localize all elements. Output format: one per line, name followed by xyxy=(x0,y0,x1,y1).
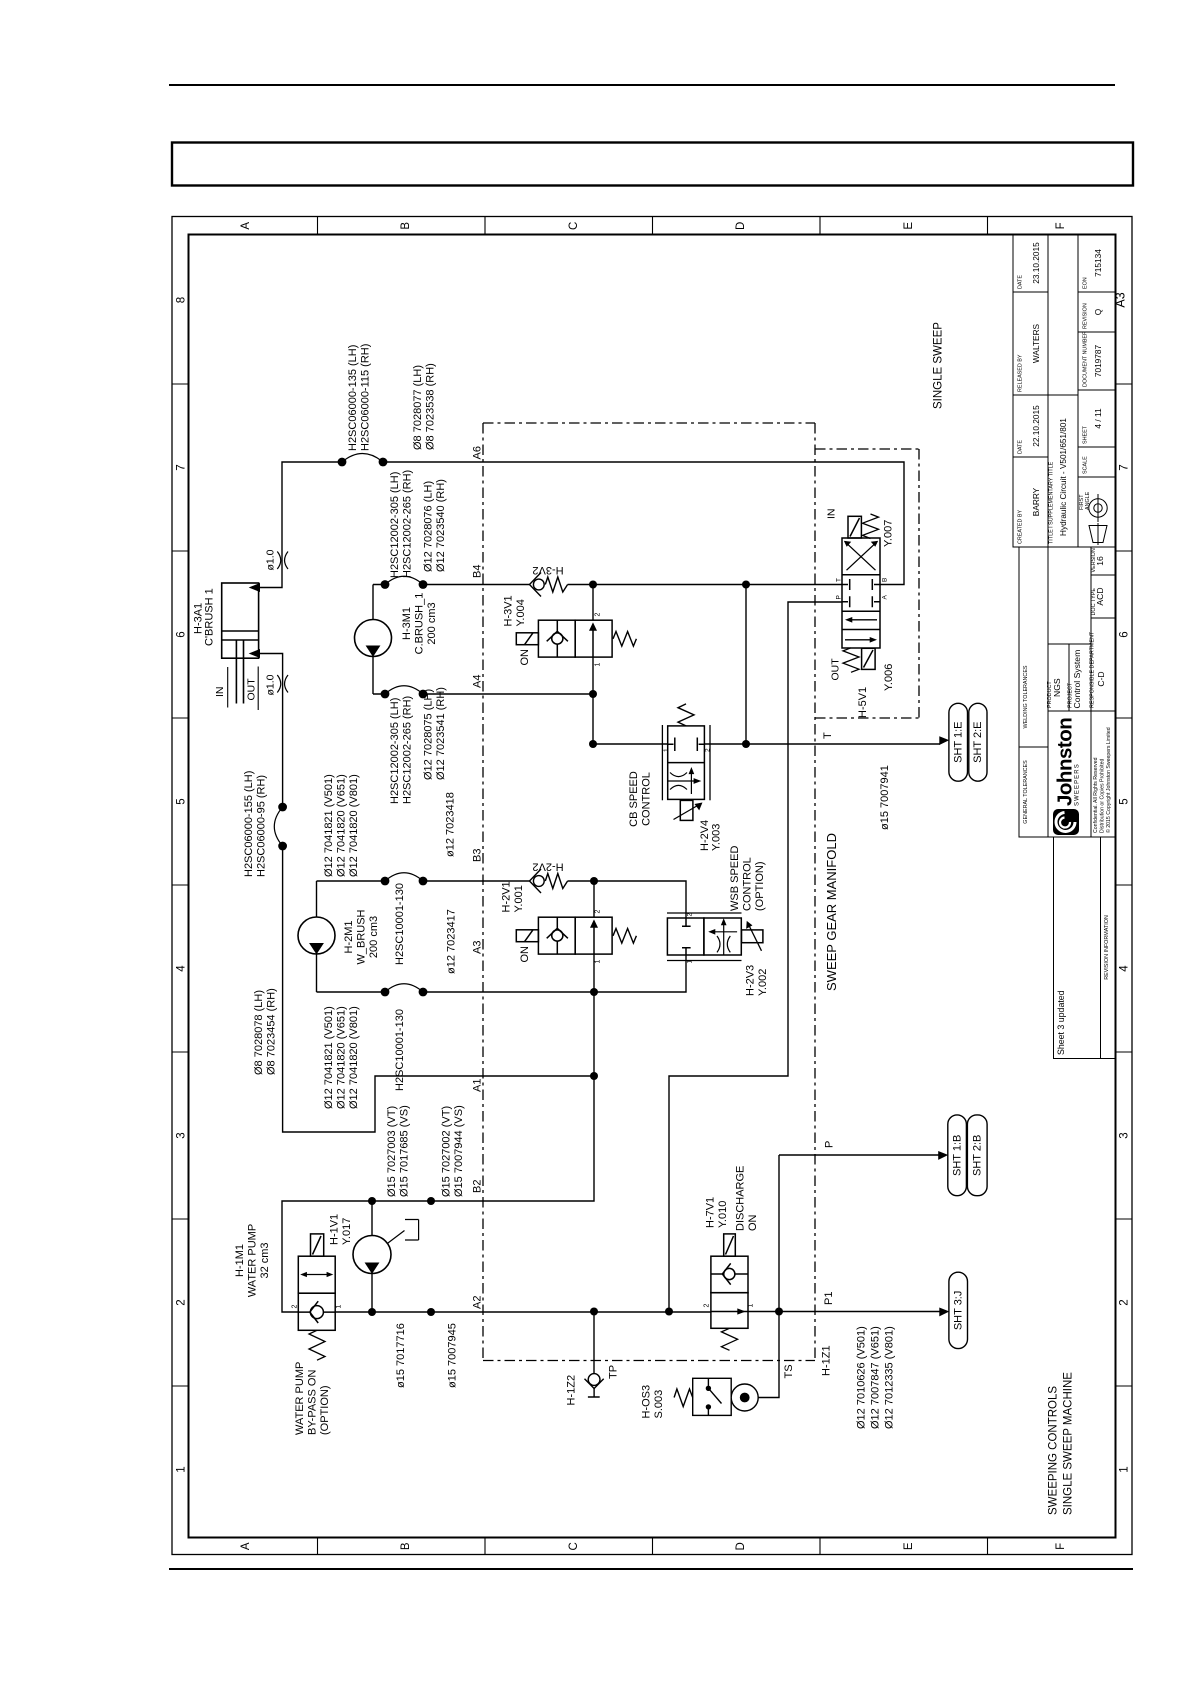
motor H-2M1 W_BRUSH xyxy=(298,917,335,954)
svg-text:H-OS3: H-OS3 xyxy=(641,1385,653,1419)
svg-text:REVISION: REVISION xyxy=(1083,303,1089,329)
svg-text:WALTERS: WALTERS xyxy=(1031,323,1041,363)
junction T line left xyxy=(589,740,597,748)
junction B2/pump xyxy=(368,1197,376,1205)
svg-text:P1: P1 xyxy=(823,1292,835,1305)
svg-text:Ø15 7007944 (VS): Ø15 7007944 (VS) xyxy=(453,1105,465,1197)
svg-text:TS: TS xyxy=(783,1364,795,1378)
hose end dot A4 left xyxy=(381,690,390,699)
svg-text:4: 4 xyxy=(175,965,187,972)
check valve H-3V2 (with spring) xyxy=(530,573,568,597)
junction B3/H-2V1 xyxy=(590,877,598,885)
wire B2 (main riser down to water pump loop) xyxy=(282,992,594,1312)
wire motor H-3M1 vertical xyxy=(372,585,374,695)
wire A3 xyxy=(317,991,595,993)
wire WSB branch xyxy=(594,881,686,992)
svg-text:T: T xyxy=(822,732,834,739)
hose end dot A3 right xyxy=(419,988,428,997)
directional valve H-5V1 xyxy=(842,514,880,672)
svg-text:SINGLE SWEEP: SINGLE SWEEP xyxy=(933,322,945,409)
svg-text:C: C xyxy=(568,1542,580,1550)
svg-text:B3: B3 xyxy=(472,849,484,862)
wire B4 (motor H-3M1 top / T-port line) xyxy=(373,584,842,586)
svg-text:ANGLE: ANGLE xyxy=(1085,491,1091,510)
svg-text:2: 2 xyxy=(595,613,602,617)
svg-text:GENERAL TOLERANCES: GENERAL TOLERANCES xyxy=(1023,760,1029,824)
svg-text:WELDING TOLERANCES: WELDING TOLERANCES xyxy=(1023,665,1029,728)
svg-text:Y.003: Y.003 xyxy=(711,824,723,851)
svg-text:CREATED BY: CREATED BY xyxy=(1018,510,1024,544)
svg-text:H-2V2: H-2V2 xyxy=(532,861,563,873)
svg-text:RESPONSIBLE DEPARTMENT: RESPONSIBLE DEPARTMENT xyxy=(1090,631,1096,708)
svg-text:H-2V3: H-2V3 xyxy=(745,965,757,996)
values xyxy=(1031,242,1106,1055)
junction A2/pump xyxy=(368,1308,376,1316)
svg-text:Ø12 7023541 (RH): Ø12 7023541 (RH) xyxy=(435,687,447,780)
svg-text:Ø12 7041820 (V651): Ø12 7041820 (V651) xyxy=(336,774,348,877)
junction T line/CB riser xyxy=(742,740,750,748)
hose OUT (vertical) xyxy=(274,807,282,846)
junction A3/H-2V1 xyxy=(590,988,598,996)
svg-text:6: 6 xyxy=(175,631,187,637)
svg-text:B4: B4 xyxy=(472,565,484,578)
svg-text:Y.001: Y.001 xyxy=(513,885,525,912)
svg-text:OUT: OUT xyxy=(830,658,842,681)
Johnston logo xyxy=(1053,718,1081,835)
junction B4/H-3V1 xyxy=(589,581,597,589)
svg-text:Control System: Control System xyxy=(1072,650,1082,709)
svg-text:D: D xyxy=(735,222,747,230)
svg-text:Y.006: Y.006 xyxy=(883,664,895,691)
svg-text:Y.004: Y.004 xyxy=(515,599,527,626)
orifice ø1.0 on OUT line xyxy=(277,675,288,693)
svg-text:3: 3 xyxy=(175,1132,187,1138)
junction A4/H-3V1 xyxy=(589,690,597,698)
svg-text:7: 7 xyxy=(175,464,187,470)
svg-text:NGS: NGS xyxy=(1052,678,1062,697)
svg-text:H-3V2: H-3V2 xyxy=(532,564,563,576)
hose end dot B3 right xyxy=(419,877,428,886)
hose end dot B4 left xyxy=(381,580,390,589)
hose A4 xyxy=(385,686,423,694)
wire A4 xyxy=(373,693,593,695)
svg-text:Ø8 7028078 (LH): Ø8 7028078 (LH) xyxy=(253,990,265,1075)
svg-text:Y.002: Y.002 xyxy=(757,969,769,996)
svg-text:ON: ON xyxy=(747,1214,759,1231)
svg-text:B2: B2 xyxy=(472,1180,484,1193)
svg-text:2: 2 xyxy=(292,1305,299,1309)
svg-text:32 cm3: 32 cm3 xyxy=(259,1242,271,1278)
wire CB riser xyxy=(745,585,747,745)
svg-text:7019787: 7019787 xyxy=(1093,344,1103,377)
svg-text:Johnston: Johnston xyxy=(1054,718,1077,806)
wire H-2V1 vertical stubs xyxy=(593,881,595,992)
svg-text:2: 2 xyxy=(1119,1299,1131,1305)
svg-text:BY-PASS ON: BY-PASS ON xyxy=(307,1370,319,1435)
motor H-3M1 C.BRUSH_1 xyxy=(355,620,392,657)
pump H-1M1 WATER PUMP xyxy=(353,1236,391,1274)
hose B3 xyxy=(385,873,423,881)
svg-text:P: P xyxy=(824,1141,836,1148)
svg-text:WSB SPEED: WSB SPEED xyxy=(729,846,741,911)
svg-text:Ø12 7028075 (LH): Ø12 7028075 (LH) xyxy=(423,689,435,780)
svg-text:REVISION INFORMATION: REVISION INFORMATION xyxy=(1104,915,1110,980)
svg-text:SCALE: SCALE xyxy=(1083,456,1089,474)
svg-text:Sheet 3 updated: Sheet 3 updated xyxy=(1056,990,1066,1055)
svg-text:DATE: DATE xyxy=(1018,275,1024,289)
svg-text:7: 7 xyxy=(1119,464,1131,470)
wire pump vertical xyxy=(371,1201,373,1312)
check valve H-2V2 (with spring) xyxy=(530,869,568,893)
junction P1/P riser xyxy=(665,1308,673,1316)
svg-text:H2SC10001-130: H2SC10001-130 xyxy=(394,883,406,965)
svg-text:22.10.2015: 22.10.2015 xyxy=(1031,405,1041,447)
svg-text:H2SC06000-95 (RH): H2SC06000-95 (RH) xyxy=(256,775,268,877)
svg-text:A3: A3 xyxy=(472,941,484,954)
svg-text:2: 2 xyxy=(595,910,602,914)
pressure switch H-OS3 S.003 xyxy=(674,1378,758,1415)
svg-text:1: 1 xyxy=(595,960,602,964)
wire H-1V1 to pump xyxy=(335,1311,372,1313)
svg-text:H2SC06000-155 (LH): H2SC06000-155 (LH) xyxy=(243,771,255,877)
svg-text:SINGLE SWEEP MACHINE: SINGLE SWEEP MACHINE xyxy=(1063,1372,1075,1515)
svg-text:SHT 2:B: SHT 2:B xyxy=(972,1135,984,1176)
svg-text:3: 3 xyxy=(1119,1132,1131,1138)
svg-text:D: D xyxy=(735,1542,747,1550)
svg-text:Ø12 7012335 (V801): Ø12 7012335 (V801) xyxy=(884,1326,896,1429)
bypass valve H-1V1 Y.017 xyxy=(298,1234,335,1360)
hose A6 xyxy=(342,454,383,463)
svg-text:A: A xyxy=(882,595,889,600)
svg-text:Ø15 7027002 (VT): Ø15 7027002 (VT) xyxy=(441,1106,453,1197)
svg-text:C'BRUSH 1: C'BRUSH 1 xyxy=(204,588,216,646)
svg-text:1: 1 xyxy=(748,1304,755,1308)
svg-text:Ø12 7041821 (V501): Ø12 7041821 (V501) xyxy=(323,774,335,877)
svg-text:1: 1 xyxy=(1119,1466,1131,1472)
test point H-1Z2 TP xyxy=(585,1374,604,1397)
svg-text:CONTROL: CONTROL xyxy=(742,857,754,911)
svg-text:SWEEPING CONTROLS: SWEEPING CONTROLS xyxy=(1048,1386,1060,1515)
bottom ticks xyxy=(318,1538,988,1555)
svg-text:ø12 7023418: ø12 7023418 xyxy=(445,792,457,857)
svg-text:RELEASED BY: RELEASED BY xyxy=(1018,354,1024,392)
svg-text:IN: IN xyxy=(214,687,226,698)
svg-text:ON: ON xyxy=(519,946,531,963)
hose end dot A4 right xyxy=(419,690,428,699)
svg-text:OUT: OUT xyxy=(246,678,258,701)
svg-text:Q: Q xyxy=(1093,308,1103,315)
svg-text:1: 1 xyxy=(687,960,694,964)
hose B4 xyxy=(385,576,423,584)
svg-text:B: B xyxy=(400,1542,412,1550)
hose end dot A3 left xyxy=(381,988,390,997)
junction P1/TP xyxy=(590,1308,598,1316)
hose end dot B3 left xyxy=(381,877,390,886)
hose end dot B4 right xyxy=(419,580,428,589)
hose end dot A6 left xyxy=(338,458,347,467)
junction A1 xyxy=(590,1072,598,1080)
svg-text:H-2M1: H-2M1 xyxy=(343,920,355,953)
junction B4/CB riser xyxy=(742,581,750,589)
svg-text:Ø12 7007847 (V651): Ø12 7007847 (V651) xyxy=(870,1326,882,1429)
solenoid valve H-3V1 Y.004 xyxy=(516,620,636,657)
svg-text:H-5V1: H-5V1 xyxy=(857,687,869,718)
wire pump case drain xyxy=(384,1220,419,1247)
svg-text:H-1Z2: H-1Z2 xyxy=(566,1375,578,1406)
svg-text:Ø12 7023540 (RH): Ø12 7023540 (RH) xyxy=(435,479,447,572)
svg-text:2: 2 xyxy=(705,748,712,752)
svg-text:SHT 1:E: SHT 1:E xyxy=(953,722,965,763)
svg-text:2: 2 xyxy=(687,913,694,917)
inner frame xyxy=(189,235,1116,1538)
svg-text:T: T xyxy=(836,578,843,582)
SHT 3:J connector xyxy=(940,1272,968,1348)
wire H-3V1 vertical stubs xyxy=(592,585,594,745)
svg-text:A6: A6 xyxy=(472,446,484,459)
copyright xyxy=(1093,727,1112,833)
svg-text:E: E xyxy=(903,222,915,230)
svg-text:SWEEPERS: SWEEPERS xyxy=(1075,763,1081,806)
svg-text:1: 1 xyxy=(663,748,670,752)
first angle projection symbol xyxy=(1089,494,1107,545)
svg-text:Ø12 7041820 (V801): Ø12 7041820 (V801) xyxy=(348,1006,360,1109)
bottom rule xyxy=(169,1568,1133,1570)
svg-text:© 2015 Copyright Johnston Swee: © 2015 Copyright Johnston Sweepers Limit… xyxy=(1105,727,1112,833)
svg-text:Ø15 7017685 (VS): Ø15 7017685 (VS) xyxy=(399,1105,411,1197)
svg-text:Ø12 7041821 (V501): Ø12 7041821 (V501) xyxy=(323,1006,335,1109)
SHT 1:E / SHT 2:E connectors xyxy=(940,703,987,781)
svg-text:SHT 2:E: SHT 2:E xyxy=(972,722,984,763)
svg-text:(OPTION): (OPTION) xyxy=(754,862,766,912)
junction dots xyxy=(278,458,783,1316)
svg-text:ø15 7017716: ø15 7017716 xyxy=(395,1323,407,1388)
wire A6 (C'BRUSH IN to H-5V1 B port) xyxy=(260,462,905,588)
svg-text:1: 1 xyxy=(595,663,602,667)
svg-text:H2SC06000-135 (LH): H2SC06000-135 (LH) xyxy=(347,345,359,451)
svg-text:DISCHARGE: DISCHARGE xyxy=(735,1166,747,1231)
svg-text:E: E xyxy=(903,1542,915,1550)
svg-text:8: 8 xyxy=(175,297,187,303)
svg-text:S.003: S.003 xyxy=(653,1390,665,1419)
svg-text:ø1.0: ø1.0 xyxy=(265,549,277,570)
captions (tiny) xyxy=(1018,275,1111,980)
svg-text:Ø15 7027003 (VT): Ø15 7027003 (VT) xyxy=(386,1106,398,1197)
svg-text:WATER PUMP: WATER PUMP xyxy=(247,1224,259,1297)
svg-text:1: 1 xyxy=(336,1305,343,1309)
svg-text:TP: TP xyxy=(608,1365,620,1379)
svg-text:Y.010: Y.010 xyxy=(717,1201,729,1228)
svg-text:A: A xyxy=(240,222,252,230)
svg-text:B: B xyxy=(400,222,412,230)
svg-text:W_BRUSH: W_BRUSH xyxy=(356,909,368,964)
svg-text:200 cm3: 200 cm3 xyxy=(426,602,438,644)
svg-text:6: 6 xyxy=(1119,631,1131,637)
svg-text:CB SPEED: CB SPEED xyxy=(628,771,640,827)
svg-text:ON: ON xyxy=(519,649,531,666)
svg-text:SHEET: SHEET xyxy=(1083,425,1089,444)
svg-text:C-D: C-D xyxy=(1096,671,1106,686)
svg-text:5: 5 xyxy=(1119,798,1131,804)
svg-text:H2SC12002-265 (RH): H2SC12002-265 (RH) xyxy=(402,696,414,804)
hose end dot OUT bottom xyxy=(278,842,287,851)
wire B3 (motor H-2M1 top) xyxy=(317,880,595,882)
flow control H-2V4 CB SPEED CONTROL xyxy=(662,704,710,821)
svg-text:Ø8 7028077 (LH): Ø8 7028077 (LH) xyxy=(412,365,424,450)
svg-text:SHT 3:J: SHT 3:J xyxy=(953,1291,965,1331)
svg-text:H-2V4: H-2V4 xyxy=(699,820,711,851)
svg-text:SHT 1:B: SHT 1:B xyxy=(951,1135,963,1176)
flow control H-2V3 WSB SPEED CONTROL xyxy=(667,913,763,961)
svg-text:Ø12 7010626 (V501): Ø12 7010626 (V501) xyxy=(856,1326,868,1429)
svg-text:H2SC12002-305 (LH): H2SC12002-305 (LH) xyxy=(389,698,401,804)
wire TP branch xyxy=(593,1312,595,1374)
svg-text:Ø8 7023538 (RH): Ø8 7023538 (RH) xyxy=(425,363,437,450)
svg-text:715134: 715134 xyxy=(1093,249,1103,277)
svg-text:H-3V1: H-3V1 xyxy=(503,595,515,626)
svg-text:ø1.0: ø1.0 xyxy=(265,674,277,695)
wire T net (to SHT 1:E) xyxy=(593,743,940,745)
svg-text:WATER PUMP: WATER PUMP xyxy=(294,1362,306,1435)
svg-text:H-1M1: H-1M1 xyxy=(234,1244,246,1277)
svg-text:DOCUMENT NUMBER: DOCUMENT NUMBER xyxy=(1083,331,1089,387)
junction P1/TS xyxy=(775,1308,783,1316)
wire P-port path xyxy=(669,602,842,1312)
wire motor H-2M1 vertical xyxy=(316,881,318,992)
svg-text:2: 2 xyxy=(704,1304,711,1308)
cylinder H-3A1 C'BRUSH 1 xyxy=(222,583,260,704)
svg-text:F: F xyxy=(1055,222,1067,229)
svg-text:Ø8 7023454 (RH): Ø8 7023454 (RH) xyxy=(266,988,278,1075)
svg-text:SWEEP GEAR MANIFOLD: SWEEP GEAR MANIFOLD xyxy=(824,833,839,991)
right ticks xyxy=(1116,384,1133,1386)
svg-text:Distribution or Copies Prohibi: Distribution or Copies Prohibited xyxy=(1100,758,1106,833)
SHT 1:B / SHT 2:B connectors xyxy=(939,1115,988,1196)
hose A3 xyxy=(385,984,423,992)
svg-text:P: P xyxy=(836,595,843,599)
svg-text:ø15 7007941: ø15 7007941 xyxy=(879,765,891,830)
top rule xyxy=(169,84,1115,86)
outer border xyxy=(172,217,1132,1555)
svg-text:H-7V1: H-7V1 xyxy=(705,1197,717,1228)
wire A2 / P1 line xyxy=(372,1311,940,1314)
svg-text:ACD: ACD xyxy=(1095,587,1105,605)
svg-text:H-2V1: H-2V1 xyxy=(501,881,513,912)
svg-text:A4: A4 xyxy=(472,675,484,688)
orifice ø1.0 on IN line xyxy=(277,552,288,570)
svg-text:Confidential. All Rights Reser: Confidential. All Rights Reserved xyxy=(1093,757,1099,833)
svg-text:CONTROL: CONTROL xyxy=(641,772,653,826)
svg-text:H-1Z1: H-1Z1 xyxy=(821,1345,833,1376)
svg-text:H-3M1: H-3M1 xyxy=(401,607,413,640)
svg-text:2: 2 xyxy=(175,1299,187,1305)
svg-text:A1: A1 xyxy=(472,1079,484,1092)
svg-text:16: 16 xyxy=(1095,556,1105,566)
svg-text:F: F xyxy=(1055,1543,1067,1550)
manifold boundary (sweep gear manifold, dash-dot) xyxy=(483,423,919,1361)
svg-text:Hydraulic Circuit - V501/651/8: Hydraulic Circuit - V501/651/801 xyxy=(1059,418,1068,536)
wire TS branch xyxy=(758,1312,779,1398)
svg-text:H2SC06000-115 (RH): H2SC06000-115 (RH) xyxy=(360,344,372,451)
svg-text:IN: IN xyxy=(826,509,838,520)
hose end dot A2 xyxy=(427,1308,435,1316)
svg-text:C: C xyxy=(568,222,580,230)
svg-text:Y.017: Y.017 xyxy=(341,1218,353,1245)
svg-text:(OPTION): (OPTION) xyxy=(319,1386,331,1436)
svg-text:Ø12 7028076 (LH): Ø12 7028076 (LH) xyxy=(423,481,435,572)
svg-text:5: 5 xyxy=(175,798,187,804)
svg-text:BARRY: BARRY xyxy=(1031,487,1041,516)
svg-text:TITLE I SUPPLEMENTARY TITLE: TITLE I SUPPLEMENTARY TITLE xyxy=(1049,461,1055,544)
svg-text:4 / 11: 4 / 11 xyxy=(1093,408,1103,429)
solenoid valve H-2V1 Y.001 xyxy=(516,917,636,954)
svg-text:EON: EON xyxy=(1083,277,1089,289)
svg-text:H-1V1: H-1V1 xyxy=(329,1214,341,1245)
svg-text:H2SC10001-130: H2SC10001-130 xyxy=(394,1009,406,1091)
svg-text:1: 1 xyxy=(175,1466,187,1472)
svg-text:Y.007: Y.007 xyxy=(883,520,895,547)
svg-text:4: 4 xyxy=(1119,965,1131,972)
svg-text:A: A xyxy=(240,1542,252,1550)
left ticks xyxy=(172,384,189,1386)
hose end dot B2 xyxy=(427,1197,435,1205)
svg-text:H2SC12002-305 (LH): H2SC12002-305 (LH) xyxy=(389,472,401,578)
svg-text:200 cm3: 200 cm3 xyxy=(368,916,380,958)
svg-text:DATE: DATE xyxy=(1018,440,1024,454)
wire OUT (C'BRUSH OUT / A1 line) xyxy=(260,654,595,1133)
header box xyxy=(172,143,1133,186)
svg-text:C.BRUSH_1: C.BRUSH_1 xyxy=(414,593,426,655)
svg-text:B: B xyxy=(882,578,889,582)
solenoid valve H-7V1 DISCHARGE xyxy=(711,1234,748,1350)
svg-text:H2SC12002-265 (RH): H2SC12002-265 (RH) xyxy=(402,470,414,578)
svg-text:A2: A2 xyxy=(472,1296,484,1309)
svg-text:ø15 7007945: ø15 7007945 xyxy=(447,1323,459,1388)
top ticks xyxy=(318,217,988,235)
svg-text:ø12 7023417: ø12 7023417 xyxy=(446,909,458,974)
svg-text:23.10.2015: 23.10.2015 xyxy=(1031,242,1041,284)
svg-text:Ø12 7041820 (V651): Ø12 7041820 (V651) xyxy=(336,1006,348,1109)
wire P branch (to SHT 1:B) xyxy=(779,1155,940,1312)
svg-text:Ø12 7041820 (V801): Ø12 7041820 (V801) xyxy=(348,774,360,877)
hose end dot OUT top xyxy=(278,803,287,812)
hose end dot A6 right xyxy=(379,458,388,467)
